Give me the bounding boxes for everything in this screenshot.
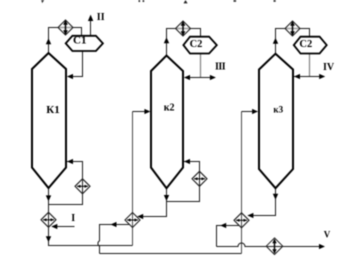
heat exchanger E3 (K3 condenser) <box>285 21 300 36</box>
arrow right feed into K3 <box>252 109 258 114</box>
wire product II riser <box>90 16 92 36</box>
svg-text:I: I <box>71 213 75 224</box>
svg-text:V: V <box>324 230 331 240</box>
column K3 <box>259 54 293 189</box>
arrow left reflux into K3 <box>294 74 300 79</box>
arrow left on K3 cooled bottoms <box>220 223 226 228</box>
wire K1 bottoms down <box>48 188 50 246</box>
cropped caption fragment 4 <box>184 0 188 3</box>
arrow down K1 bottoms <box>46 195 51 201</box>
svg-text:К1: К1 <box>46 104 59 116</box>
wire K2 reboiler loop <box>167 162 200 202</box>
wire K3 overhead vapour <box>276 29 310 54</box>
cropped caption fragment 5 <box>234 0 237 2</box>
arrow up on K1 overhead <box>46 38 51 44</box>
condenser drum C2 (K2) <box>183 37 216 54</box>
arrow right product V <box>319 244 325 249</box>
svg-text:к3: к3 <box>273 104 283 114</box>
arrow right product III <box>210 75 216 80</box>
wire K3 feed riser <box>241 112 243 254</box>
wire K2 cooled bottoms to lower manifold <box>98 225 130 254</box>
arrow right feed into K2 <box>144 109 150 114</box>
wire K1 overhead vapour <box>49 28 82 53</box>
svg-text:C2: C2 <box>299 39 312 50</box>
heat exchanger E9 (product V cooler) <box>266 238 283 255</box>
cropped caption fragment 6 <box>274 0 276 2</box>
arrow left K2 bottoms into exchanger E4 <box>137 214 143 219</box>
arrow left reflux into K2 <box>184 75 190 80</box>
cropped caption fragment 2 <box>139 0 141 2</box>
arrow left on K2 cooled bottoms <box>111 222 117 227</box>
arrow down K2 bottoms <box>164 195 169 201</box>
heat exchanger E7 (K2 reboiler) <box>192 171 207 186</box>
svg-text:к2: к2 <box>164 103 175 114</box>
heat exchanger E4 (K2 feed preheater) <box>125 213 140 228</box>
wire K2 feed riser <box>132 112 134 246</box>
heat exchanger E5 (K3 feed preheater) <box>234 213 249 228</box>
wire product IV header <box>294 76 324 78</box>
heat exchanger E6 (K1 reboiler) <box>75 179 90 194</box>
arrow up on K2 overhead <box>164 37 169 43</box>
wire K3 cooled bottoms down <box>217 226 240 247</box>
wire C2 downcomer K2 <box>200 53 202 77</box>
wire feed I <box>52 226 75 228</box>
svg-text:II: II <box>97 12 105 23</box>
wire C1 bottom to K1 reflux <box>68 51 83 77</box>
wire product III header <box>185 77 216 79</box>
heat exchanger E2 (K2 condenser) <box>176 21 191 36</box>
arrow down K3 bottoms <box>273 194 278 200</box>
svg-text:III: III <box>215 62 226 73</box>
condenser drum C2 (K3) <box>294 37 327 54</box>
arrow down K1 bottoms lower <box>46 236 51 242</box>
arrow up on K3 overhead <box>273 38 278 44</box>
wire K2 bottoms down <box>138 188 167 217</box>
arrow left feed I <box>51 224 57 229</box>
svg-text:C1: C1 <box>73 35 86 47</box>
arrow right product IV <box>319 74 325 79</box>
svg-text:IV: IV <box>323 62 335 73</box>
wire K2 overhead vapour <box>167 29 201 56</box>
arrow left reflux into K1 <box>67 74 73 79</box>
svg-text:C2: C2 <box>190 39 203 50</box>
wire C2 downcomer K3 <box>309 53 311 76</box>
arrow left reboiler return into K1 <box>67 159 73 164</box>
cropped caption fragment 1 <box>41 0 44 3</box>
arrow left K3 bottoms into exchanger E5 <box>247 213 253 218</box>
wire lower manifold to K3 <box>100 253 242 255</box>
column K2 <box>151 56 183 189</box>
arrow left reboiler return into K2 <box>184 159 190 164</box>
column K1 <box>32 53 66 188</box>
arrow up product II <box>88 15 93 21</box>
wire K1 reboiler loop <box>49 162 83 205</box>
wire K2 feed horizontal <box>133 111 150 113</box>
wire K3 feed horizontal <box>242 111 258 113</box>
heat exchanger E1 (K1 condenser) <box>58 20 73 35</box>
heat exchanger E8 (K1 bottoms cooler) <box>41 212 56 227</box>
condenser drum C1 <box>66 36 103 51</box>
wire product V header with hop over riser <box>217 243 325 247</box>
wire K3 bottoms down <box>248 188 276 216</box>
cropped caption fragment 3 <box>143 0 145 2</box>
wire K1 bottoms manifold <box>48 245 133 247</box>
